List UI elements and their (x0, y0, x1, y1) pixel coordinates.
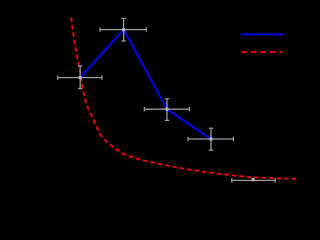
error bars point 3 (144, 99, 189, 121)
marker point 5 (252, 178, 255, 182)
red dashed fit curve (71, 18, 296, 180)
error bars point 2 (100, 18, 146, 41)
blue data line (80, 30, 211, 139)
error bars point 1 (58, 66, 102, 89)
marker point 1 (79, 76, 82, 79)
marker point 2 (122, 28, 125, 31)
marker point 3 (166, 108, 169, 111)
legend blue line sample (241, 33, 284, 35)
marker point 4 (210, 138, 213, 141)
error bar point 5 (232, 178, 275, 182)
legend red dashed line sample (242, 51, 283, 53)
error bars point 4 (188, 128, 234, 150)
